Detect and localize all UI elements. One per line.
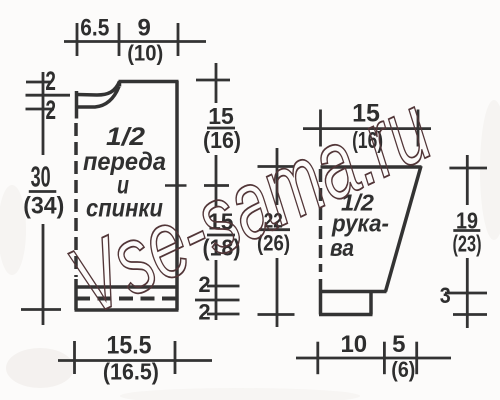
svg-text:2: 2 [46, 95, 57, 125]
svg-text:3: 3 [440, 283, 451, 308]
svg-text:10: 10 [340, 331, 367, 358]
svg-text:(23): (23) [453, 231, 482, 257]
svg-text:ва: ва [330, 235, 354, 262]
svg-text:(10): (10) [127, 40, 163, 65]
svg-text:(16): (16) [203, 127, 241, 153]
svg-text:2: 2 [198, 300, 210, 325]
svg-text:15.5: 15.5 [107, 332, 152, 360]
svg-text:5: 5 [392, 331, 405, 358]
svg-text:1/2: 1/2 [106, 123, 145, 151]
svg-text:(34): (34) [23, 192, 64, 219]
svg-text:(6): (6) [391, 357, 415, 382]
svg-text:30: 30 [31, 162, 51, 194]
svg-text:(16.5): (16.5) [103, 359, 159, 385]
svg-text:9: 9 [138, 14, 151, 41]
svg-text:6.5: 6.5 [80, 14, 109, 41]
svg-text:15: 15 [208, 103, 234, 129]
svg-text:2: 2 [45, 66, 56, 96]
svg-text:19: 19 [456, 207, 478, 233]
